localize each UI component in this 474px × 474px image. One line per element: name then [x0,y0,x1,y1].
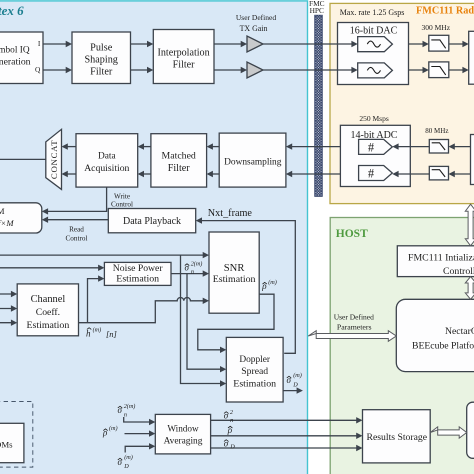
svg-text:BEEcube Platform: BEEcube Platform [412,341,474,352]
arrow into results 1 [356,417,362,423]
svg-text:Data Playback: Data Playback [123,216,181,227]
wire Q: amp to DAC [263,69,356,71]
dashed group box bottom left [0,402,33,468]
arrow into downsampling 1 [286,143,292,149]
RAM block (cut off) [0,203,42,233]
svg-text:Matched: Matched [162,150,196,161]
wire: channel input 2 [0,308,16,310]
arrow into RX filter 2 [449,171,455,177]
Virtex 6 FPGA region (light blue) [0,1,308,474]
wire Q: interpolation to amp [214,69,246,71]
svg-text:16-bit DAC: 16-bit DAC [350,25,398,36]
open arrow results storage to database [430,427,467,438]
wire: write control, data acquisition to RAM [44,187,107,211]
nectar BEEcube platform block [396,299,474,371]
RF block TX (cut off) [469,31,474,84]
RX anti-alias filter 2 (80 MHz) [429,166,448,180]
arrow into DAC sym2 [351,67,357,73]
wire Q: symbol IQ to pulse shaping [43,69,70,71]
arrow into RX filter 1 [449,143,455,149]
arrow into RAM write [42,208,48,214]
arrow into doppler in3 [220,380,226,386]
svg-text:2(m): 2(m) [191,261,203,268]
wire I: DAC to TX filter [409,43,428,45]
arrow into channel in1 [11,291,17,297]
wire RX2: downsampling to matched filter [208,173,219,175]
svg-text:Spread: Spread [241,366,268,377]
data playback block [108,209,195,233]
arrow into data playback [196,217,202,223]
HOST region (light green) [330,218,474,474]
RX anti-alias filter 1 (80 MHz) [429,140,448,154]
svg-text:(m): (m) [268,279,277,286]
svg-text:HOST: HOST [336,228,368,240]
open arrow FMC111 card to controller [465,204,474,246]
pulse shaping filter block [72,32,131,84]
wire RX2: matched filter to data acquisition [139,173,151,175]
wire: channel output h to SNR in3 with hops [79,298,208,323]
svg-text:CONCAT: CONCAT [49,140,59,179]
wire: channel input 1 [0,293,16,295]
lowpass icon RX filter 1 [432,143,445,150]
wire: tap v2 from noise output down to doppler in2 [187,274,225,370]
svg-text:Read: Read [69,225,84,233]
svg-text:(m): (m) [124,454,133,461]
svg-text:FMC111 Radio Card: FMC111 Radio Card [416,6,474,17]
ADC converter symbol 2 [359,166,393,181]
svg-text:Nxt_frame: Nxt_frame [208,208,253,219]
svg-text:#: # [368,141,375,155]
wire: window out 1 to results storage [211,419,361,421]
svg-text:Max. rate 1.25 Gsps: Max. rate 1.25 Gsps [340,8,405,17]
svg-text:Averaging: Averaging [164,437,203,447]
arrow into amp Q [241,67,247,73]
wire RX1: data acquisition to CONCAT [63,146,76,148]
arrow into RF TX 2 [462,67,468,73]
svg-text:Parameters: Parameters [337,323,372,332]
wire RX1: matched filter to data acquisition [139,146,151,148]
svg-text:Window: Window [167,424,199,434]
open arrow controller to nectar platform [465,277,474,300]
arrow into CONCAT 2 [62,171,68,177]
wire I: symbol IQ to pulse shaping [43,43,70,45]
svg-text:Virtex 6: Virtex 6 [0,3,24,18]
lowpass icon TX filter 1 [431,40,445,48]
wire RX2: data acquisition to CONCAT [63,173,76,175]
arrow into results 2 [356,433,362,439]
arrow into interpolation Q [147,67,153,73]
arrow into channel in3 [11,320,17,326]
svg-text:#: # [368,167,375,181]
svg-text:Symbol IQ: Symbol IQ [0,46,30,56]
svg-text:D: D [292,381,298,388]
arrow into data acquisition 1 [138,143,144,149]
svg-text:Estimation: Estimation [27,320,70,331]
svg-text:Q: Q [35,65,41,74]
arrow into SNR in3 [203,298,209,304]
arrow into pulse shaping Q [66,67,72,73]
arrow into channel in2 [11,305,17,311]
16-bit DAC block [338,23,409,85]
svg-text:Pulse: Pulse [90,43,113,54]
svg-text:n: n [124,411,127,418]
svg-text:Filter: Filter [173,59,196,70]
arrow into matched filter 1 [207,143,213,149]
svg-text:[n]: [n] [106,329,117,339]
arrow into DAC sym1 [351,41,357,47]
wire I: amp to DAC [263,43,356,45]
svg-text:n: n [191,269,194,276]
svg-text:OFDMs: OFDMs [0,440,13,450]
matched filter block [151,134,207,187]
svg-text:D: D [123,463,129,470]
CONCAT mux [46,129,62,189]
wire: window out 3 to results storage [211,447,361,449]
wire: noise power to SNR in2 [171,273,207,275]
noise power estimation block [104,262,171,285]
arrow into noise power in1 [98,265,104,271]
svg-text:Write: Write [114,192,130,200]
channel coeff estimation block [17,284,78,336]
wire Q: TX filter to RF [449,69,467,71]
data acquisition block [76,134,138,187]
FMC111 card region (cream/orange) [330,3,474,203]
DAC converter symbol 1 [358,37,393,52]
svg-text:300 MHz: 300 MHz [422,23,451,32]
symbol IQ generation block [0,32,43,84]
arrow into amp I [241,41,247,47]
results storage block [363,410,431,463]
TX anti-alias filter 1 (300 MHz) [429,35,449,51]
wire I: TX filter to RF [449,43,467,45]
svg-text:Control: Control [66,235,88,243]
svg-text:2(m): 2(m) [124,403,136,410]
svg-text:Downsampling: Downsampling [224,157,282,167]
wire: window averaging input 2 stub [125,433,154,435]
arrow into noise power in2 [98,275,104,281]
svg-text:Data: Data [98,151,117,161]
svg-text:Control: Control [111,201,133,209]
arrow into SNR in2 [203,270,209,276]
arrow into downsampling 2 [286,171,292,177]
svg-text:Controller: Controller [443,266,474,277]
OFDM symbols block (cut off) [0,423,24,462]
svg-text:User Defined: User Defined [236,13,276,22]
arrow into CONCAT 1 [62,143,68,149]
svg-text:80 MHz: 80 MHz [425,127,448,135]
wire I: pulse shaping to interpolation [131,43,152,45]
wire: input to noise power in1 [0,267,103,269]
svg-text:(m): (m) [293,372,302,379]
wire RX2: filter to ADC [394,173,430,175]
wire: nxt_frame, doppler to data playback [197,221,295,354]
svg-text:Shaping: Shaping [84,55,117,66]
arrow into doppler in2 [220,366,226,372]
open arrow user defined parameters [308,331,396,342]
arrow into ADC sym1 [392,143,398,149]
arrow into TX filter 1 [423,41,429,47]
svg-text:(m): (m) [93,327,102,334]
wire RX1: ADC to downsampling [287,146,340,148]
svg-text:D: D [229,444,235,451]
svg-text:FMC111 Intialization: FMC111 Intialization [408,252,474,263]
arrow into ADC sym2 [392,171,398,177]
svg-text:Filter: Filter [168,163,191,174]
database block (cut off) [467,402,474,458]
svg-text:TX Gain: TX Gain [240,24,268,33]
svg-text:User Defined: User Defined [334,312,374,321]
svg-text:Generation: Generation [0,56,31,67]
svg-text:Channel: Channel [31,294,66,305]
arrow into RF TX 1 [462,41,468,47]
svg-text:Filter: Filter [90,67,113,78]
wire RX2: RF to RX filter [450,173,471,175]
TX anti-alias filter 2 (300 MHz) [429,62,449,78]
RF block RX (cut off) [471,135,474,185]
sine glyph DAC 1 [367,41,380,47]
svg-text:h: h [86,329,91,339]
wire I: interpolation to amp [214,43,246,45]
FMC HPC hatched connector bar [315,15,323,196]
wire: window averaging input 1 stub [124,417,154,422]
arrow into window in2 [149,430,155,436]
arrow into results 3 [356,445,362,451]
wire RX1: filter to ADC [394,146,430,148]
svg-text:Interpolation: Interpolation [158,47,210,58]
arrow into TX filter 2 [423,67,429,73]
arrow into window in3 [149,443,155,449]
arrow into matched filter 2 [207,171,213,177]
amplifier TX Q [247,62,263,78]
interpolation filter block [153,30,214,84]
ADC converter symbol 1 [359,139,393,154]
svg-text:Estimation: Estimation [116,273,159,284]
downsampling block [219,133,286,187]
sine glyph DAC 2 [367,67,380,73]
arrow into SNR in1 [203,252,209,258]
arrow into doppler in1 [220,347,226,353]
DAC converter symbol 2 [358,63,393,78]
arrow into pulse shaping I [66,41,72,47]
svg-text:250 Msps: 250 Msps [359,114,388,123]
svg-text:Results Storage: Results Storage [367,432,428,443]
wire: doppler sigma_D output (dangling) [283,390,301,392]
svg-text:Coeff.: Coeff. [36,307,60,318]
svg-text:HPC: HPC [310,6,324,15]
wire: window averaging input 3 stub [125,446,153,452]
arrow into data acquisition 2 [138,171,144,177]
amplifier TX I [247,36,263,52]
wire: channel input 3 [0,322,16,324]
wire: tap v1 from input line down to doppler in3 [181,255,225,383]
svg-text:2: 2 [230,409,233,416]
doppler spread estimation block [226,337,283,402]
lowpass icon TX filter 2 [431,67,445,75]
svg-text:Acquisition: Acquisition [84,163,129,174]
wire: window out 2 to results storage [211,435,361,437]
svg-text:(m): (m) [109,425,118,432]
wire RX1: downsampling to matched filter [208,146,219,148]
wire: channel output branch to noise power in2 [88,279,103,323]
SNR estimation block [209,232,259,313]
14-bit ADC block [340,125,410,186]
svg-text:Estimation: Estimation [213,274,256,285]
svg-text:NectarOS: NectarOS [445,326,474,337]
wire Q: DAC to TX filter [409,69,428,71]
svg-text:14-bit ADC: 14-bit ADC [351,130,398,141]
wire: SNR rho output to doppler in1 [198,294,274,350]
svg-text:n: n [230,417,233,424]
svg-text:Nf×M: Nf×M [0,218,14,228]
wire RX2: ADC to downsampling [287,173,340,175]
arrow sigma_D dangling [297,387,303,393]
svg-text:RAM: RAM [0,206,5,216]
svg-text:SNR: SNR [224,263,246,274]
svg-text:Doppler: Doppler [239,355,271,365]
lowpass icon RX filter 2 [432,170,445,177]
arrow into interpolation I [147,41,153,47]
arrow into RAM read [42,217,48,223]
FMC111 initialization controller block [397,246,474,277]
wire RX1: RF to RX filter [450,146,471,148]
wire: input to SNR estimation in1 [0,254,207,256]
arrow into window in1 [149,419,155,425]
wire: read control, data playback to RAM [44,219,109,221]
svg-text:Estimation: Estimation [233,379,276,390]
wire Q: pulse shaping to interpolation [131,69,152,71]
wire: CONCAT output to left edge [0,158,46,160]
window averaging block [155,414,210,454]
